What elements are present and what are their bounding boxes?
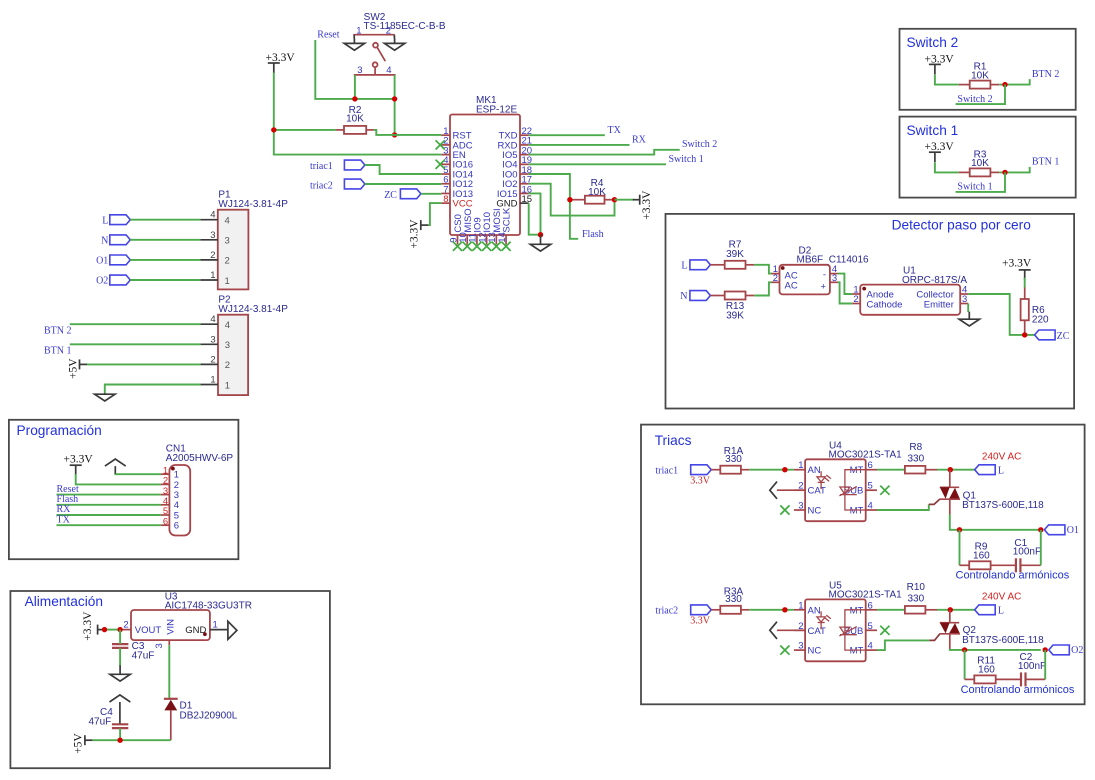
ground (SW2 pin2) xyxy=(384,38,404,50)
svg-text:2: 2 xyxy=(386,25,391,36)
junction xyxy=(1002,82,1007,87)
wire Q1 to O1 xyxy=(950,514,1041,530)
svg-text:Emitter: Emitter xyxy=(924,299,954,310)
svg-text:15: 15 xyxy=(522,194,533,205)
svg-text:5: 5 xyxy=(868,621,873,632)
junction xyxy=(1043,647,1048,652)
tag O1 xyxy=(1044,525,1065,535)
wire R13 to D2 pin2 xyxy=(754,282,771,295)
tag O2 xyxy=(110,275,131,285)
svg-text:+: + xyxy=(820,281,826,292)
wire triac1 to U4 pin1 xyxy=(749,469,794,471)
svg-text:3: 3 xyxy=(798,641,803,652)
svg-text:2: 2 xyxy=(225,256,230,267)
svg-text:Switch 1: Switch 1 xyxy=(669,154,704,165)
resistor R8 330 xyxy=(905,442,937,474)
wire flag to CN1 pin1 xyxy=(115,473,160,475)
svg-text:10K: 10K xyxy=(588,187,606,198)
wire TX xyxy=(529,134,605,136)
svg-text:VOUT: VOUT xyxy=(135,625,162,636)
svg-text:TS-1185EC-C-B-B: TS-1185EC-C-B-B xyxy=(364,21,446,32)
wire +3.3V to VOUT xyxy=(105,629,120,631)
optotriac U5 MOC3021S-TA1 xyxy=(794,581,902,662)
svg-text:+5V: +5V xyxy=(67,358,79,379)
resistor R4 10K xyxy=(570,178,615,204)
junction xyxy=(782,467,787,472)
junction xyxy=(271,127,276,132)
wire N to P1 xyxy=(130,239,200,241)
svg-text:1: 1 xyxy=(356,25,361,36)
svg-text:WJ124-3.81-4P: WJ124-3.81-4P xyxy=(218,199,288,210)
wire TX to CN1 xyxy=(57,524,161,526)
svg-text:3.3V: 3.3V xyxy=(690,475,711,486)
svg-text:3: 3 xyxy=(832,273,837,284)
svg-text:triac2: triac2 xyxy=(310,181,333,192)
tag triac2 xyxy=(344,179,365,189)
svg-text:DB2J20900L: DB2J20900L xyxy=(180,710,238,721)
wire RX to CN1 xyxy=(57,514,161,516)
wire R3 to BTN 1 xyxy=(999,167,1029,173)
tag triac1 xyxy=(344,160,365,170)
gate lead Q2 xyxy=(929,634,939,640)
tag L xyxy=(110,215,131,225)
power flag (U4 CAT) xyxy=(770,482,805,499)
wire Q2 to O2 xyxy=(950,649,1041,650)
svg-text:6: 6 xyxy=(868,600,873,611)
wire IO0 to Flash xyxy=(529,174,579,239)
svg-text:TX: TX xyxy=(57,514,71,525)
svg-text:330: 330 xyxy=(725,594,742,605)
no-connect pin 10 xyxy=(463,242,472,251)
ground (U1) xyxy=(959,312,979,326)
svg-text:39K: 39K xyxy=(726,311,744,322)
wire +3.3V to R3 xyxy=(935,162,959,172)
capacitor C3 47uF xyxy=(112,641,154,661)
capacitor C2 100nF xyxy=(996,652,1046,686)
wire Reset to CN1 xyxy=(57,494,161,496)
no-connect pin 12 xyxy=(482,242,491,251)
svg-text:2: 2 xyxy=(225,360,230,371)
power +3.3V (CN1) xyxy=(64,453,94,475)
wire R2 to RST xyxy=(374,130,441,135)
no-connect U5 SUB xyxy=(880,626,889,635)
regulator U3 AIC1748-33GU3TR xyxy=(120,591,252,648)
wire +3.3V rail to EN xyxy=(274,73,442,155)
wire ZC to IO13 xyxy=(421,193,441,195)
svg-text:3.3V: 3.3V xyxy=(690,616,711,627)
no-connect U4 SUB xyxy=(880,486,889,495)
wire Switch 2 net xyxy=(529,150,680,155)
svg-text:8: 8 xyxy=(443,194,448,205)
wire Switch 1 net xyxy=(529,163,666,165)
wire SW2 pin4 down xyxy=(394,75,396,135)
svg-text:5: 5 xyxy=(868,481,873,492)
resistor R2 10K xyxy=(336,105,374,134)
connector P2 WJ124-3.81-4P xyxy=(200,294,288,395)
svg-text:6: 6 xyxy=(163,516,168,527)
svg-text:Detector paso por cero: Detector paso por cero xyxy=(892,218,1032,233)
wire P2 pin1 to ground xyxy=(105,385,201,394)
wire Switch 1 net xyxy=(956,172,1005,192)
junction xyxy=(1038,527,1043,532)
tag L (detector) xyxy=(690,260,711,270)
wire C4 to +5V rail xyxy=(119,728,121,740)
svg-text:+5V: +5V xyxy=(73,733,85,754)
svg-text:100nF: 100nF xyxy=(1018,661,1046,672)
svg-text:2: 2 xyxy=(210,250,215,261)
wire SW2 pin3 down xyxy=(354,75,356,99)
tag triac1 xyxy=(691,465,712,475)
svg-text:Programación: Programación xyxy=(17,423,102,438)
svg-text:CAT: CAT xyxy=(808,626,826,637)
power +3.3V (R6) xyxy=(1002,257,1032,280)
wire +3.3V to R6 xyxy=(1024,278,1026,288)
power +3.3V (R4) xyxy=(633,190,654,220)
power +5V (P2) xyxy=(67,358,87,379)
svg-text:Alimentación: Alimentación xyxy=(25,594,103,609)
wire IO15 to GND xyxy=(529,193,541,234)
wire +5V rail xyxy=(92,739,170,741)
no-connect IO16 xyxy=(436,160,445,169)
svg-text:N: N xyxy=(101,235,108,246)
svg-text:MT: MT xyxy=(850,646,864,657)
wire U4 MT to R8 xyxy=(877,469,905,471)
diode D1 DB2J20900L xyxy=(164,699,238,740)
tag ZC xyxy=(400,189,421,199)
power flag (CN1 pin1) xyxy=(105,459,126,474)
triac Q2 BT137S-600E,118 xyxy=(939,610,1044,649)
wire VOUT to C3 xyxy=(119,630,121,645)
ground (C3) xyxy=(110,665,130,681)
resistor R13 39K xyxy=(710,292,754,322)
svg-text:Cathode: Cathode xyxy=(867,299,903,310)
svg-text:WJ124-3.81-4P: WJ124-3.81-4P xyxy=(218,304,288,315)
power flag (U3 GND) xyxy=(228,621,237,639)
power +5V (rail) xyxy=(73,733,93,754)
wire triac1 to IO14 xyxy=(365,165,441,174)
wire O2 to P1 xyxy=(130,279,200,281)
gate lead Q1 xyxy=(929,499,940,504)
optotriac U4 MOC3021S-TA1 xyxy=(794,440,902,521)
wire D2+ to U1 cathode xyxy=(838,282,852,303)
svg-text:A2005HWV-6P: A2005HWV-6P xyxy=(166,453,234,464)
svg-text:+3.3V: +3.3V xyxy=(409,219,421,249)
svg-text:3: 3 xyxy=(225,340,230,351)
svg-text:Reset: Reset xyxy=(317,29,339,40)
junction xyxy=(1022,332,1027,337)
svg-text:3: 3 xyxy=(357,65,362,76)
svg-text:Flash: Flash xyxy=(582,229,604,240)
wire C3 to ground xyxy=(119,648,121,666)
svg-text:2: 2 xyxy=(853,294,858,305)
svg-text:MT: MT xyxy=(850,605,864,616)
wire D2- to U1 anode xyxy=(838,274,852,294)
svg-text:330: 330 xyxy=(907,594,924,605)
wire snubber left xyxy=(959,530,961,566)
svg-text:240V AC: 240V AC xyxy=(982,592,1021,603)
capacitor C4 47uF xyxy=(89,707,129,728)
svg-text:NC: NC xyxy=(808,506,822,517)
svg-text:RX: RX xyxy=(632,135,647,146)
box Triacs xyxy=(641,425,1085,705)
connector P1 WJ124-3.81-4P xyxy=(200,189,288,289)
junction xyxy=(948,607,953,612)
tag N xyxy=(110,235,131,245)
svg-text:AN: AN xyxy=(808,465,821,476)
no-connect U5 NC xyxy=(780,646,789,655)
svg-text:+3.3V: +3.3V xyxy=(641,190,653,220)
wire Switch 2 net xyxy=(956,85,1005,105)
svg-text:39K: 39K xyxy=(726,249,744,260)
resistor R7 39K xyxy=(710,240,754,269)
svg-text:1: 1 xyxy=(210,375,215,386)
no-connect ADC xyxy=(436,140,445,149)
svg-text:SCLK: SCLK xyxy=(502,207,513,232)
wire +3.3V to CN1 pin2 xyxy=(76,474,161,484)
no-connect pin 13 xyxy=(492,242,501,251)
wire +3.3V to R1 xyxy=(935,75,959,85)
wire RX xyxy=(529,144,630,146)
wire snubber right xyxy=(1044,650,1046,680)
junction xyxy=(392,96,397,101)
svg-text:ZC: ZC xyxy=(1057,331,1070,342)
svg-text:220: 220 xyxy=(1032,315,1049,326)
svg-text:O1: O1 xyxy=(1067,525,1079,536)
svg-text:Triacs: Triacs xyxy=(655,433,692,448)
svg-text:MT: MT xyxy=(850,465,864,476)
power +3.3V (U3) xyxy=(82,611,105,641)
wire R8 to L xyxy=(937,469,975,471)
svg-text:3: 3 xyxy=(225,236,230,247)
power +3.3V (top left) xyxy=(266,52,296,73)
svg-text:O2: O2 xyxy=(1071,645,1083,656)
svg-text:BTN 1: BTN 1 xyxy=(1032,157,1060,168)
wire R7 to D2 pin1 xyxy=(754,265,771,274)
wire U5 to Q2 gate xyxy=(877,640,929,650)
svg-text:3: 3 xyxy=(798,501,803,512)
svg-text:10K: 10K xyxy=(971,158,989,169)
svg-text:+3.3V: +3.3V xyxy=(82,611,94,641)
svg-text:240V AC: 240V AC xyxy=(982,452,1021,463)
ground (P2) xyxy=(95,393,115,401)
junction xyxy=(117,627,122,632)
svg-text:BT137S-600E,118: BT137S-600E,118 xyxy=(962,500,1044,511)
svg-text:1: 1 xyxy=(798,600,803,611)
no-connect pin 11 xyxy=(472,242,481,251)
resistor R3 10K xyxy=(959,149,1000,176)
svg-text:330: 330 xyxy=(725,454,742,465)
power +3.3V (R3) xyxy=(925,141,955,162)
connector CN1 A2005HWV-6P xyxy=(161,444,234,536)
svg-text:1: 1 xyxy=(225,380,230,391)
node +3.3V end xyxy=(102,627,107,632)
resistor R1A 330 xyxy=(711,446,749,474)
tag ZC (detector) xyxy=(1035,330,1056,340)
resistor R11 160 xyxy=(965,656,996,684)
svg-text:Switch 2: Switch 2 xyxy=(682,139,717,150)
svg-text:Switch 2: Switch 2 xyxy=(907,35,959,50)
svg-text:100nF: 100nF xyxy=(1013,547,1041,558)
wire U5 MT to R10 xyxy=(877,609,905,611)
svg-text:L: L xyxy=(102,215,108,226)
power flag (U5 CAT) xyxy=(770,622,805,639)
svg-text:4: 4 xyxy=(868,641,873,652)
svg-text:VIN: VIN xyxy=(165,619,176,635)
switch SW2 TS-1185EC-C-B-B xyxy=(353,12,445,76)
svg-text:BTN 1: BTN 1 xyxy=(44,346,72,357)
wire R4 to +3.3V xyxy=(615,199,635,201)
power +3.3V (VCC) xyxy=(409,219,429,249)
svg-text:4: 4 xyxy=(868,501,873,512)
svg-text:NC: NC xyxy=(808,646,822,657)
wire Reset net xyxy=(315,40,394,99)
tag L (triacs) xyxy=(975,605,996,615)
svg-text:triac2: triac2 xyxy=(655,606,678,617)
wire VCC to +3.3V xyxy=(428,203,441,225)
ground (SW2 pin1) xyxy=(344,38,364,50)
svg-text:1: 1 xyxy=(225,276,230,287)
svg-text:BT137S-600E,118: BT137S-600E,118 xyxy=(962,635,1044,646)
wire Flash to CN1 xyxy=(57,504,161,506)
junction xyxy=(538,232,543,237)
svg-text:4: 4 xyxy=(210,314,215,325)
svg-text:330: 330 xyxy=(907,453,924,464)
junction xyxy=(612,197,617,202)
ground (ESP) xyxy=(530,235,550,251)
wire L to P1 xyxy=(130,219,200,221)
wire triac2 to IO12 xyxy=(365,183,441,185)
svg-text:triac1: triac1 xyxy=(655,466,678,477)
svg-text:triac1: triac1 xyxy=(310,161,333,172)
svg-text:MT: MT xyxy=(850,506,864,517)
svg-text:3: 3 xyxy=(154,643,165,648)
box Detector paso por cero xyxy=(666,214,1075,409)
svg-text:ZC: ZC xyxy=(384,190,397,201)
svg-text:BTN 2: BTN 2 xyxy=(1032,69,1060,80)
wire +5V to P2 xyxy=(87,363,200,365)
wire BTN 1 xyxy=(70,343,201,345)
svg-text:R8: R8 xyxy=(909,442,922,453)
svg-text:Switch 2: Switch 2 xyxy=(957,94,992,105)
wire snubber left xyxy=(964,650,966,680)
junction xyxy=(782,607,787,612)
box Switch 1 xyxy=(900,117,1076,198)
resistor R9 160 xyxy=(960,542,991,570)
resistor R6 220 xyxy=(1021,288,1049,335)
junction xyxy=(962,647,967,652)
svg-text:+3.3V: +3.3V xyxy=(64,453,94,465)
svg-text:4: 4 xyxy=(386,65,391,76)
box Switch 2 xyxy=(900,29,1076,110)
svg-text:3: 3 xyxy=(210,230,215,241)
tag triac2 xyxy=(691,605,712,615)
power +3.3V (R1) xyxy=(925,53,955,74)
wire BTN 2 xyxy=(70,323,201,325)
wire snubber right xyxy=(1040,530,1042,566)
bridge rectifier D2 MB6F_C114016 xyxy=(772,246,870,295)
tag O2 xyxy=(1049,645,1070,655)
svg-text:N: N xyxy=(680,291,687,302)
svg-text:1: 1 xyxy=(210,270,215,281)
svg-text:Controlando armónicos: Controlando armónicos xyxy=(956,570,1070,582)
svg-text:6: 6 xyxy=(868,460,873,471)
svg-text:O2: O2 xyxy=(96,276,108,287)
svg-text:TX: TX xyxy=(608,125,622,136)
wire U4 to Q1 gate xyxy=(877,504,929,510)
svg-text:3: 3 xyxy=(962,294,967,305)
box Programacion xyxy=(9,420,239,559)
svg-text:160: 160 xyxy=(973,550,990,561)
junction xyxy=(352,96,357,101)
tag N (detector) xyxy=(690,291,711,301)
resistor R1 10K xyxy=(959,62,1000,89)
junction xyxy=(1002,170,1007,175)
svg-text:1: 1 xyxy=(798,460,803,471)
svg-text:2: 2 xyxy=(773,273,778,284)
capacitor C1 100nF xyxy=(991,538,1041,572)
svg-text:R10: R10 xyxy=(907,582,926,593)
svg-text:Controlando armónicos: Controlando armónicos xyxy=(961,684,1075,696)
svg-text:6: 6 xyxy=(174,521,179,532)
svg-text:ESP-12E: ESP-12E xyxy=(476,104,517,115)
svg-text:47uF: 47uF xyxy=(89,716,112,727)
svg-text:47uF: 47uF xyxy=(132,650,155,661)
junction xyxy=(957,527,962,532)
wire R1 to BTN 2 xyxy=(999,79,1029,85)
svg-text:+3.3V: +3.3V xyxy=(1002,257,1032,269)
svg-text:L: L xyxy=(998,606,1004,617)
svg-text:10K: 10K xyxy=(346,113,364,124)
svg-text:AN: AN xyxy=(808,605,821,616)
svg-text:3: 3 xyxy=(210,334,215,345)
junction xyxy=(948,467,953,472)
svg-text:2: 2 xyxy=(210,354,215,365)
svg-text:L: L xyxy=(998,465,1004,476)
wire emitter to ground xyxy=(967,304,969,313)
svg-text:L: L xyxy=(681,260,687,271)
junction xyxy=(392,132,397,137)
svg-text:160: 160 xyxy=(978,665,995,676)
wire GND pin15 xyxy=(529,203,541,235)
tag L (triacs) xyxy=(975,465,996,475)
svg-text:10K: 10K xyxy=(971,70,989,81)
wire VIN to D1 xyxy=(168,645,170,698)
svg-text:VCC: VCC xyxy=(453,199,473,210)
resistor R10 330 xyxy=(905,582,937,614)
power flag (C4) xyxy=(110,695,131,710)
svg-text:AC: AC xyxy=(785,281,798,292)
box Alimentacion xyxy=(10,591,330,768)
svg-text:4: 4 xyxy=(210,210,215,221)
wire O1 to P1 xyxy=(130,259,200,261)
triac Q1 BT137S-600E,118 xyxy=(939,470,1044,515)
svg-text:4: 4 xyxy=(225,320,230,331)
wire collector to ZC xyxy=(968,294,1034,335)
wire IO2 to R4 xyxy=(529,184,615,216)
svg-text:14: 14 xyxy=(497,232,508,243)
wire R10 to L xyxy=(937,609,975,611)
resistor R3A 330 xyxy=(711,586,749,614)
svg-text:CAT: CAT xyxy=(808,486,826,497)
junction xyxy=(567,197,572,202)
wire +3.3V to R2 xyxy=(274,129,336,131)
svg-text:2: 2 xyxy=(123,620,128,631)
svg-text:Switch 1: Switch 1 xyxy=(907,123,959,138)
junction xyxy=(117,738,122,743)
svg-text:4: 4 xyxy=(225,216,230,227)
tag O1 xyxy=(110,255,131,265)
no-connect U4 NC xyxy=(780,505,789,514)
